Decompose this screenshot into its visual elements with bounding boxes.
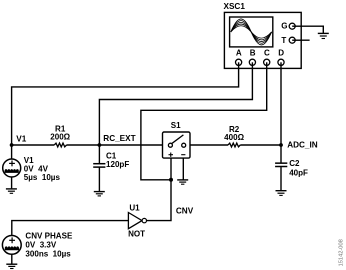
svg-text:XSC1: XSC1 bbox=[224, 2, 246, 11]
switch S1 bbox=[163, 132, 191, 158]
wire scope D to node ADC_IN bbox=[280, 62, 282, 145]
svg-text:A: A bbox=[236, 49, 242, 58]
node CNV junction bbox=[169, 178, 173, 182]
svg-text:T: T bbox=[281, 36, 286, 45]
wire stubs scope terminals bbox=[239, 26, 302, 69]
ground V1 source bbox=[6, 189, 17, 193]
svg-text:D: D bbox=[278, 49, 284, 58]
svg-text:C2: C2 bbox=[289, 159, 300, 168]
wire R2 to node ADC_IN bbox=[240, 144, 281, 146]
node RC_EXT bbox=[98, 143, 102, 147]
wire scope B to node RC_EXT bbox=[99, 62, 252, 145]
wire switch S1 to R2 bbox=[186, 144, 228, 146]
svg-text:CNV PHASE: CNV PHASE bbox=[25, 232, 73, 241]
wire node ADC_IN to C2 bbox=[280, 145, 282, 163]
svg-text:300ns 10µs: 300ns 10µs bbox=[25, 250, 71, 259]
wire node RC_EXT to C1 bbox=[98, 145, 100, 163]
svg-text:5µs 10µs: 5µs 10µs bbox=[24, 173, 61, 182]
wire CNV PHASE source to NOT input bbox=[12, 221, 129, 236]
capacitor C1 bbox=[93, 164, 105, 167]
capacitor C2 bbox=[275, 163, 287, 166]
ground scope G bbox=[318, 33, 329, 38]
wire scope C to node CNV bbox=[141, 62, 267, 180]
svg-text:S1: S1 bbox=[171, 121, 181, 130]
svg-text:RC_EXT: RC_EXT bbox=[103, 134, 135, 143]
wire node V1 to R1 bbox=[12, 144, 55, 146]
svg-text:U1: U1 bbox=[129, 203, 140, 212]
resistor R1 bbox=[54, 143, 66, 147]
wire C1 to ground bbox=[98, 167, 100, 191]
svg-text:40pF: 40pF bbox=[289, 169, 308, 178]
svg-text:0V 3.3V: 0V 3.3V bbox=[25, 241, 57, 250]
wire V1 source to node V1 bbox=[11, 145, 13, 159]
ground CNV PHASE source bbox=[6, 264, 17, 268]
svg-text:ADC_IN: ADC_IN bbox=[287, 140, 318, 149]
wire scope G to ground bbox=[292, 26, 323, 33]
wire R1 to switch S1 bbox=[67, 144, 169, 146]
svg-text:400Ω: 400Ω bbox=[224, 133, 244, 142]
resistor R2 bbox=[228, 143, 240, 147]
svg-text:G: G bbox=[281, 22, 287, 31]
wire switch plus terminal to CNV junction bbox=[170, 158, 172, 180]
wire scope T stub bbox=[292, 39, 309, 41]
ground switch minus bbox=[177, 180, 188, 184]
svg-text:120pF: 120pF bbox=[106, 160, 129, 169]
ground C2 bbox=[276, 191, 287, 196]
inverter U1 bbox=[128, 213, 142, 229]
svg-text:15142-008: 15142-008 bbox=[339, 239, 345, 266]
wire switch minus terminal to ground bbox=[182, 158, 184, 179]
svg-text:B: B bbox=[250, 49, 256, 58]
wire C2 to ground bbox=[280, 167, 282, 190]
node V1 bbox=[10, 143, 14, 147]
ground C1 bbox=[94, 192, 105, 196]
svg-text:NOT: NOT bbox=[128, 229, 145, 238]
node ADC_IN bbox=[279, 143, 283, 147]
voltage source V1 bbox=[3, 159, 21, 177]
svg-text:CNV: CNV bbox=[176, 206, 194, 215]
wire scope A to node V1 bbox=[12, 62, 239, 145]
voltage source CNV PHASE bbox=[2, 236, 21, 255]
wire CNV junction to NOT output bbox=[147, 180, 172, 221]
svg-text:V1: V1 bbox=[16, 134, 26, 143]
wire V1 source to ground bbox=[11, 177, 13, 189]
scope screen waveform bbox=[231, 19, 272, 45]
svg-text:200Ω: 200Ω bbox=[50, 132, 70, 141]
wire CNV PHASE source to ground bbox=[11, 254, 13, 263]
svg-text:C: C bbox=[264, 49, 270, 58]
